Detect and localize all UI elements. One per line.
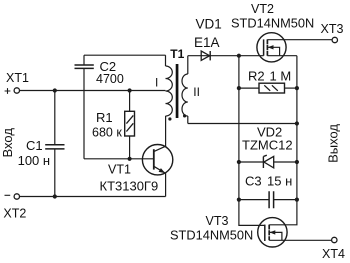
svg-text:680 к: 680 к <box>92 125 122 139</box>
svg-text:XT4: XT4 <box>322 247 345 261</box>
zener diode VD2 <box>239 155 297 168</box>
node C1 bottom junction <box>53 194 57 198</box>
svg-text:VD1: VD1 <box>196 16 222 31</box>
terminal XT1 <box>5 88 20 94</box>
svg-text:T1: T1 <box>170 47 184 61</box>
terminal XT3 <box>332 37 337 42</box>
svg-text:I: I <box>155 76 158 90</box>
node R2 left <box>237 86 241 90</box>
node R1 top junction <box>128 88 132 92</box>
terminal XT4 <box>332 237 337 242</box>
transistor VT1 <box>142 116 172 197</box>
node R1 bottom junction <box>128 157 132 161</box>
svg-text:R2: R2 <box>248 68 265 83</box>
node R2 right <box>295 86 299 90</box>
wire base line <box>84 158 154 160</box>
wire source rail <box>269 56 297 225</box>
svg-text:XT3: XT3 <box>321 22 344 36</box>
transformer T1 secondary winding II <box>182 56 188 124</box>
terminal XT2 <box>5 194 20 199</box>
svg-text:XT1: XT1 <box>6 71 29 85</box>
wire top rail <box>84 54 166 56</box>
svg-text:VT3: VT3 <box>206 214 229 228</box>
svg-text:100 н: 100 н <box>18 153 50 168</box>
svg-text:КТ3130Г9: КТ3130Г9 <box>100 179 159 194</box>
svg-text:R1: R1 <box>96 110 113 125</box>
svg-text:STD14NM50N: STD14NM50N <box>170 228 253 243</box>
svg-text:E1A: E1A <box>194 35 220 50</box>
resistor R1 <box>125 91 135 159</box>
phase dot secondary <box>183 114 186 117</box>
capacitor C3 <box>239 191 297 208</box>
transformer T1 primary winding I <box>166 55 173 116</box>
svg-text:STD14NM50N: STD14NM50N <box>231 16 314 31</box>
resistor R2 <box>239 83 297 93</box>
wire T1 secondary bottom to source rail <box>188 123 297 125</box>
svg-text:Выход: Выход <box>325 124 340 163</box>
svg-text:VT1: VT1 <box>108 163 131 177</box>
node T1 bottom on source rail <box>295 121 299 125</box>
svg-text:II: II <box>193 85 200 99</box>
svg-text:XT2: XT2 <box>3 207 26 221</box>
MOSFET VT2 <box>257 33 332 62</box>
wire gate rail <box>239 56 265 226</box>
transformer T1 core <box>176 64 179 118</box>
svg-text:4700: 4700 <box>96 72 124 86</box>
node input plus / C1 top junction <box>53 88 57 92</box>
node VD1 output / gate rail top <box>237 54 241 58</box>
svg-text:TZMC12: TZMC12 <box>242 137 293 152</box>
wire input plus rail <box>20 90 166 92</box>
svg-text:Вход: Вход <box>0 128 15 158</box>
capacitor C2 <box>75 55 94 159</box>
svg-text:C1: C1 <box>26 138 43 153</box>
svg-text:15 н: 15 н <box>267 173 292 188</box>
svg-text:1 М: 1 М <box>270 68 292 83</box>
svg-text:C3: C3 <box>245 173 262 188</box>
node VD2 right <box>295 160 299 164</box>
capacitor C1 <box>45 91 64 197</box>
node VD2 left <box>237 160 241 164</box>
node C3 right <box>295 198 299 202</box>
diode VD1 <box>188 51 264 60</box>
MOSFET VT3 <box>258 218 332 247</box>
wire bottom rail <box>20 196 166 198</box>
node C3 left <box>237 198 241 202</box>
phase dot primary <box>168 117 171 120</box>
svg-text:VT2: VT2 <box>251 2 274 16</box>
